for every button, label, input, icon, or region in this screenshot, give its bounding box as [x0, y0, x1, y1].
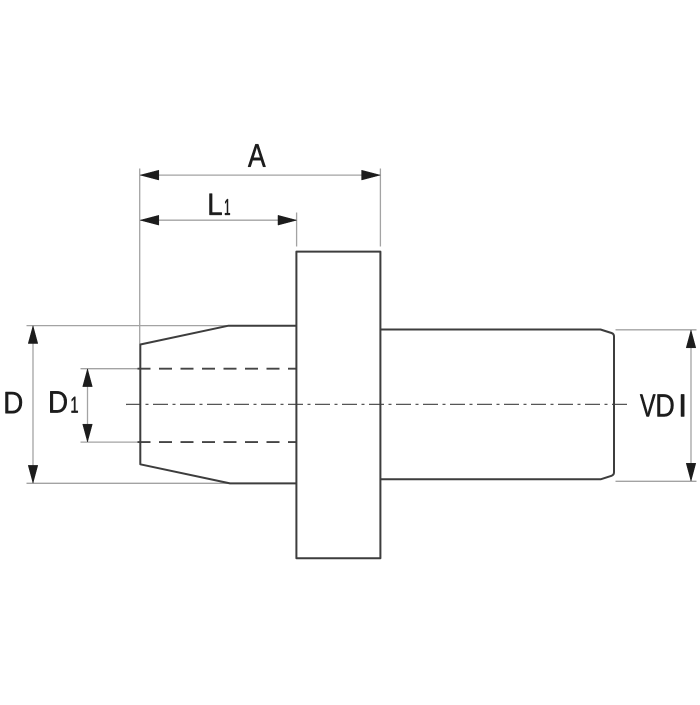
arrowhead A left	[140, 170, 159, 180]
label D1 - subscript 1	[72, 397, 78, 413]
arrowhead VDI top	[686, 330, 696, 348]
arrowhead D bottom	[28, 465, 38, 483]
arrowhead D top	[28, 326, 38, 344]
extension line D top	[27, 325, 229, 327]
part outline: collet taper section	[140, 326, 296, 484]
label A	[248, 144, 266, 167]
hidden bore line upper (dashed)	[138, 368, 297, 370]
label VDI - D	[657, 394, 673, 416]
dimension line VDI	[690, 330, 692, 481]
label D	[5, 392, 21, 413]
part outline: flange	[296, 252, 380, 559]
extension line VDI bottom	[616, 480, 697, 482]
label VDI - I	[681, 394, 684, 416]
dimension line L1	[141, 219, 297, 221]
hidden bore line lower (dashed)	[138, 441, 297, 443]
extension line right of A (flange right edge)	[379, 169, 381, 247]
extension line VDI top	[616, 329, 697, 331]
dimension line D1	[87, 369, 89, 442]
arrowhead D1 bottom	[83, 424, 93, 442]
label D1 - letter D	[50, 391, 66, 412]
arrowhead L1 right	[278, 215, 297, 225]
arrowhead L1 left	[140, 215, 159, 225]
arrowhead VDI bottom	[686, 463, 696, 481]
arrowhead A right	[362, 170, 381, 180]
label VDI - V	[640, 394, 656, 416]
extension line D bottom	[27, 482, 231, 484]
arrowhead D1 top	[83, 369, 93, 387]
centerline (dash-dot axis)	[126, 403, 631, 405]
dimension line A	[141, 174, 381, 176]
extension line left (A / L1, at part nose)	[139, 169, 141, 345]
label L1 - subscript 1	[225, 199, 230, 215]
label L1 - letter L	[209, 194, 221, 215]
extension line right of L1 (flange left edge)	[296, 213, 298, 247]
part outline: VDI shank body with chamfered right corners	[380, 330, 614, 480]
dimension line D	[32, 326, 34, 483]
extension line D1 top	[81, 368, 139, 370]
extension line D1 bottom	[81, 441, 139, 443]
